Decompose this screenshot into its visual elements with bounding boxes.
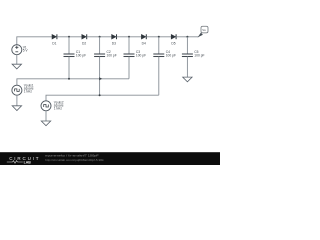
- pulse source Vpuls2: [41, 100, 64, 110]
- svg-text:nyumeneko / fx-smzknf7 100pF: nyumeneko / fx-smzknf7 100pF: [45, 153, 99, 157]
- node dot top rail C2: [99, 36, 101, 38]
- capacitor C4: [153, 37, 176, 95]
- node flag Vo: [198, 26, 208, 37]
- wire top rail segment V1 to D1: [17, 37, 52, 45]
- pulse source Vpuls1: [12, 84, 34, 96]
- svg-text:1 kHz: 1 kHz: [54, 106, 63, 110]
- svg-text:D1: D1: [52, 41, 56, 45]
- ground Vpuls1: [12, 106, 21, 111]
- diode D4: [141, 34, 146, 45]
- svg-text:5 V: 5 V: [23, 49, 29, 53]
- capacitor C1: [64, 37, 87, 79]
- node dot top rail C4: [158, 36, 160, 38]
- node dot top rail C3: [128, 36, 130, 38]
- svg-text:100 pF: 100 pF: [136, 54, 146, 58]
- footer bar: [0, 152, 220, 165]
- svg-text:Vo: Vo: [202, 28, 206, 32]
- svg-text:100 pF: 100 pF: [107, 54, 117, 58]
- svg-text:100 pF: 100 pF: [76, 54, 86, 58]
- wire Vpuls2 to ground: [45, 111, 47, 121]
- svg-text:D2: D2: [82, 41, 86, 45]
- svg-text:D5: D5: [171, 41, 175, 45]
- node dot top rail C5: [186, 36, 188, 38]
- node dot top rail C1: [68, 36, 70, 38]
- wire Vpuls1 to ground: [16, 95, 18, 106]
- svg-text:D3: D3: [112, 41, 116, 45]
- wire rail A (Vpuls1 - C1 - C3): [17, 79, 129, 85]
- svg-text:LAB: LAB: [24, 160, 32, 164]
- wire rail B (Vpuls2 - C2 - C4): [46, 95, 159, 101]
- node dot rail A C1: [68, 78, 70, 80]
- wire D1 to D2: [57, 36, 82, 38]
- logo CircuitLab: [7, 156, 41, 164]
- wire D2 to D3: [87, 36, 112, 38]
- voltage source V1: [12, 45, 29, 55]
- wire D5 to Vo: [176, 36, 199, 38]
- capacitor C2: [94, 37, 117, 95]
- diode D3: [112, 34, 117, 45]
- diode D1: [52, 34, 57, 45]
- ground V1: [12, 64, 21, 69]
- capacitor C5: [182, 37, 205, 77]
- diode D5: [171, 34, 176, 45]
- wire D4 to D5: [146, 36, 171, 38]
- junction marker rail A at C2 crossing: [99, 77, 102, 80]
- diode D2: [82, 34, 87, 45]
- svg-text:1 kHz: 1 kHz: [24, 90, 33, 94]
- svg-text:http://circuitlab.com/c/pq66t8: http://circuitlab.com/c/pq66t8a/100pf-5-…: [45, 158, 104, 162]
- wire D3 to D4: [117, 36, 142, 38]
- capacitor C3: [124, 37, 147, 79]
- wire V1 to ground: [16, 55, 18, 64]
- ground Vpuls2: [41, 121, 50, 126]
- svg-text:100 pF: 100 pF: [166, 54, 176, 58]
- node dot rail B C2: [99, 94, 101, 96]
- svg-text:100 pF: 100 pF: [194, 54, 204, 58]
- ground C5: [183, 77, 192, 82]
- svg-text:D4: D4: [142, 41, 146, 45]
